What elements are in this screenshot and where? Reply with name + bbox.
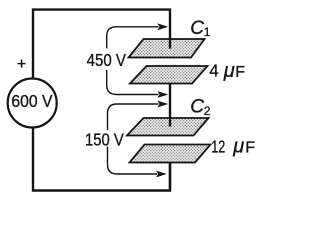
- svg-text:μ: μ: [232, 136, 244, 158]
- svg-text:F: F: [235, 64, 245, 81]
- svg-text:C: C: [190, 97, 204, 118]
- wire: top loop from source to capacitor bus: [33, 10, 170, 79]
- capacitor C2 top plate: [127, 118, 209, 136]
- svg-text:+: +: [17, 56, 26, 73]
- capacitor C1 bottom plate: [130, 66, 208, 84]
- svg-text:450 V: 450 V: [87, 50, 127, 70]
- annotation 150 V lower arrow: [108, 147, 158, 175]
- annotation 450 V upper arrow: [107, 27, 159, 49]
- wire: bus between C1 and C2: [169, 84, 171, 127]
- svg-text:600 V: 600 V: [11, 91, 52, 111]
- wire: stem into C1 top plate center: [169, 38, 171, 49]
- svg-text:μ: μ: [223, 60, 235, 82]
- wire: bottom loop from source to capacitor bus: [33, 128, 170, 191]
- svg-text:150 V: 150 V: [85, 130, 124, 150]
- svg-text:2: 2: [204, 104, 211, 118]
- svg-text:4: 4: [209, 61, 219, 81]
- wire: stem below C2 bottom plate: [169, 162, 171, 190]
- annotation 150 V upper arrow: [108, 104, 159, 130]
- svg-text:F: F: [245, 140, 255, 157]
- svg-text:C: C: [190, 18, 204, 39]
- arrowhead 450 V lower: [157, 91, 168, 98]
- annotation 450 V lower arrow: [107, 70, 159, 95]
- arrowhead 150 V lower: [156, 171, 167, 178]
- arrowhead 450 V upper: [157, 23, 168, 30]
- arrowhead 150 V upper: [157, 101, 168, 108]
- capacitor C1 top plate: [129, 39, 205, 58]
- battery source circle: [8, 79, 57, 128]
- svg-text:1: 1: [204, 25, 211, 39]
- svg-text:12: 12: [211, 137, 225, 157]
- capacitor C2 bottom plate: [130, 145, 211, 163]
